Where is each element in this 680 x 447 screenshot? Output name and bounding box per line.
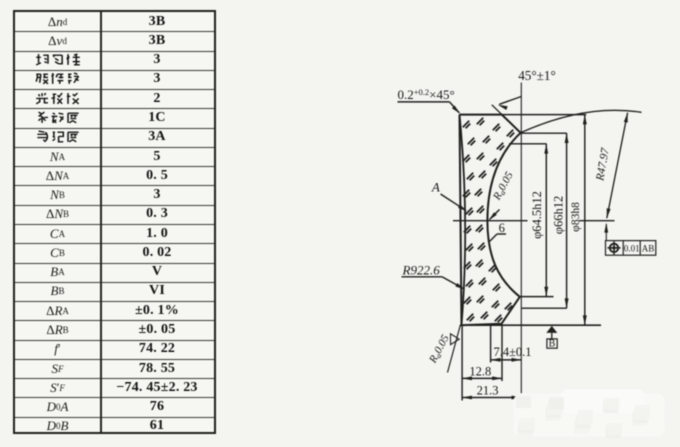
svg-text:φ64.5h12: φ64.5h12 xyxy=(530,191,544,239)
Ra0.05 upper leader xyxy=(490,210,500,220)
glass hatching of lens section xyxy=(463,118,514,322)
R47.97 center mark / leader to frame xyxy=(605,224,607,241)
extension line phi64.5 bottom xyxy=(520,296,554,298)
extension line top (phi83) xyxy=(460,114,587,116)
optical axis centerline xyxy=(453,220,528,222)
svg-text:B: B xyxy=(549,339,556,350)
open triangle mark xyxy=(451,334,460,345)
extension line phi66 bottom xyxy=(521,307,567,309)
chamfer note leader xyxy=(398,101,450,103)
svg-text:45°±1°: 45°±1° xyxy=(518,68,556,83)
svg-text:Ra0.05: Ra0.05 xyxy=(427,332,453,366)
svg-text:AB: AB xyxy=(642,244,655,254)
extension line phi64.5 top xyxy=(509,143,547,145)
dimension line phi66h12 xyxy=(566,133,568,308)
datum B triangle xyxy=(546,326,557,333)
svg-text:R47.97: R47.97 xyxy=(594,146,612,183)
dimension line phi64.5h12 xyxy=(545,144,547,297)
text phi64.5h12 xyxy=(530,191,544,239)
position tolerance frame xyxy=(606,241,656,256)
svg-text:φ83h8: φ83h8 xyxy=(570,202,582,232)
dim 12.8 line xyxy=(462,377,502,379)
surface roughness Ra0.05 (concave surface) xyxy=(491,169,517,203)
45 deg leader arrow xyxy=(499,97,521,105)
concave surface extension arc (to R47.97) xyxy=(521,110,642,133)
dimension line phi83h8 xyxy=(584,115,586,326)
surface roughness Ra0.05 (left surface) xyxy=(427,332,453,366)
dimension 6 leader xyxy=(497,233,506,235)
chamfer edge extension line xyxy=(492,105,521,133)
extension line phi66 top xyxy=(521,132,567,134)
baseline / datum B line xyxy=(462,324,602,326)
text phi83h8 xyxy=(570,202,582,232)
R922.6 leader xyxy=(402,276,443,278)
R47.97 text xyxy=(594,146,612,183)
lens outline (cross-section) xyxy=(460,115,521,326)
extension line center vertex xyxy=(490,325,492,362)
Ra0.05 lower leader line xyxy=(448,325,461,373)
blurred watermark xyxy=(513,389,665,441)
svg-text:12.8: 12.8 xyxy=(469,365,491,379)
extension line bottom chamfer xyxy=(501,325,503,381)
svg-text:φ66h12: φ66h12 xyxy=(551,196,565,234)
extension line of right flat face xyxy=(520,83,522,403)
parameters table xyxy=(13,10,216,434)
R47.97 dimension line xyxy=(607,113,628,219)
svg-text:0.01: 0.01 xyxy=(624,244,640,254)
svg-text:21.3: 21.3 xyxy=(477,384,499,398)
extension line left edge xyxy=(461,325,463,400)
svg-text:A: A xyxy=(431,180,440,195)
svg-text:6: 6 xyxy=(499,221,505,235)
dim 7.4+-0.1 line xyxy=(491,359,522,361)
text phi66h12 xyxy=(551,196,565,234)
dim 21.3 line xyxy=(462,397,521,399)
lens left surface R922.6 arc xyxy=(460,115,466,326)
svg-text:7.4±0.1: 7.4±0.1 xyxy=(493,345,531,359)
datum B box xyxy=(547,339,557,348)
svg-text:0.2+0.2×45°: 0.2+0.2×45° xyxy=(398,87,455,102)
A label leader xyxy=(441,194,466,210)
svg-text:R922.6: R922.6 xyxy=(402,263,441,278)
